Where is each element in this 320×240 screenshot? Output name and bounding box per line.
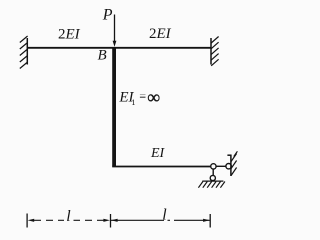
wall hatching right xyxy=(211,37,218,66)
roller circle at ground xyxy=(210,175,215,180)
dimension extension tick left xyxy=(26,214,28,228)
vertical link to ground roller xyxy=(212,169,214,176)
svg-text:∞: ∞ xyxy=(147,87,160,107)
svg-text:l: l xyxy=(66,208,71,225)
dimension line right (solid) xyxy=(111,219,210,222)
dimension extension tick right xyxy=(209,214,211,228)
wall for horizontal roller xyxy=(227,155,231,177)
wall support right (fixed) xyxy=(210,38,212,65)
rigid column B (EI1 = infinity) xyxy=(112,48,116,167)
dimension extension tick middle xyxy=(110,214,112,228)
ground hatching xyxy=(198,182,225,188)
load P arrow xyxy=(113,15,117,47)
dimension line left (dashed) xyxy=(28,219,110,222)
svg-text:l: l xyxy=(162,206,167,223)
svg-text:P: P xyxy=(102,6,113,23)
svg-text:B: B xyxy=(98,48,107,64)
hinge circle at beam end xyxy=(211,164,216,169)
roller circle at wall xyxy=(226,164,231,169)
ground line under roller xyxy=(202,180,223,182)
svg-text:2EI: 2EI xyxy=(149,26,172,42)
wall hatching left xyxy=(20,36,28,69)
beam top (member A-B-C) xyxy=(27,47,211,49)
hatching of roller wall xyxy=(231,151,237,175)
svg-text:1: 1 xyxy=(131,97,135,107)
beam bottom (member to roller) xyxy=(112,166,211,168)
svg-text:EI: EI xyxy=(150,146,166,161)
svg-text:2EI: 2EI xyxy=(58,27,81,43)
wall support left (fixed) xyxy=(26,38,28,65)
horizontal link to wall roller xyxy=(216,165,226,167)
